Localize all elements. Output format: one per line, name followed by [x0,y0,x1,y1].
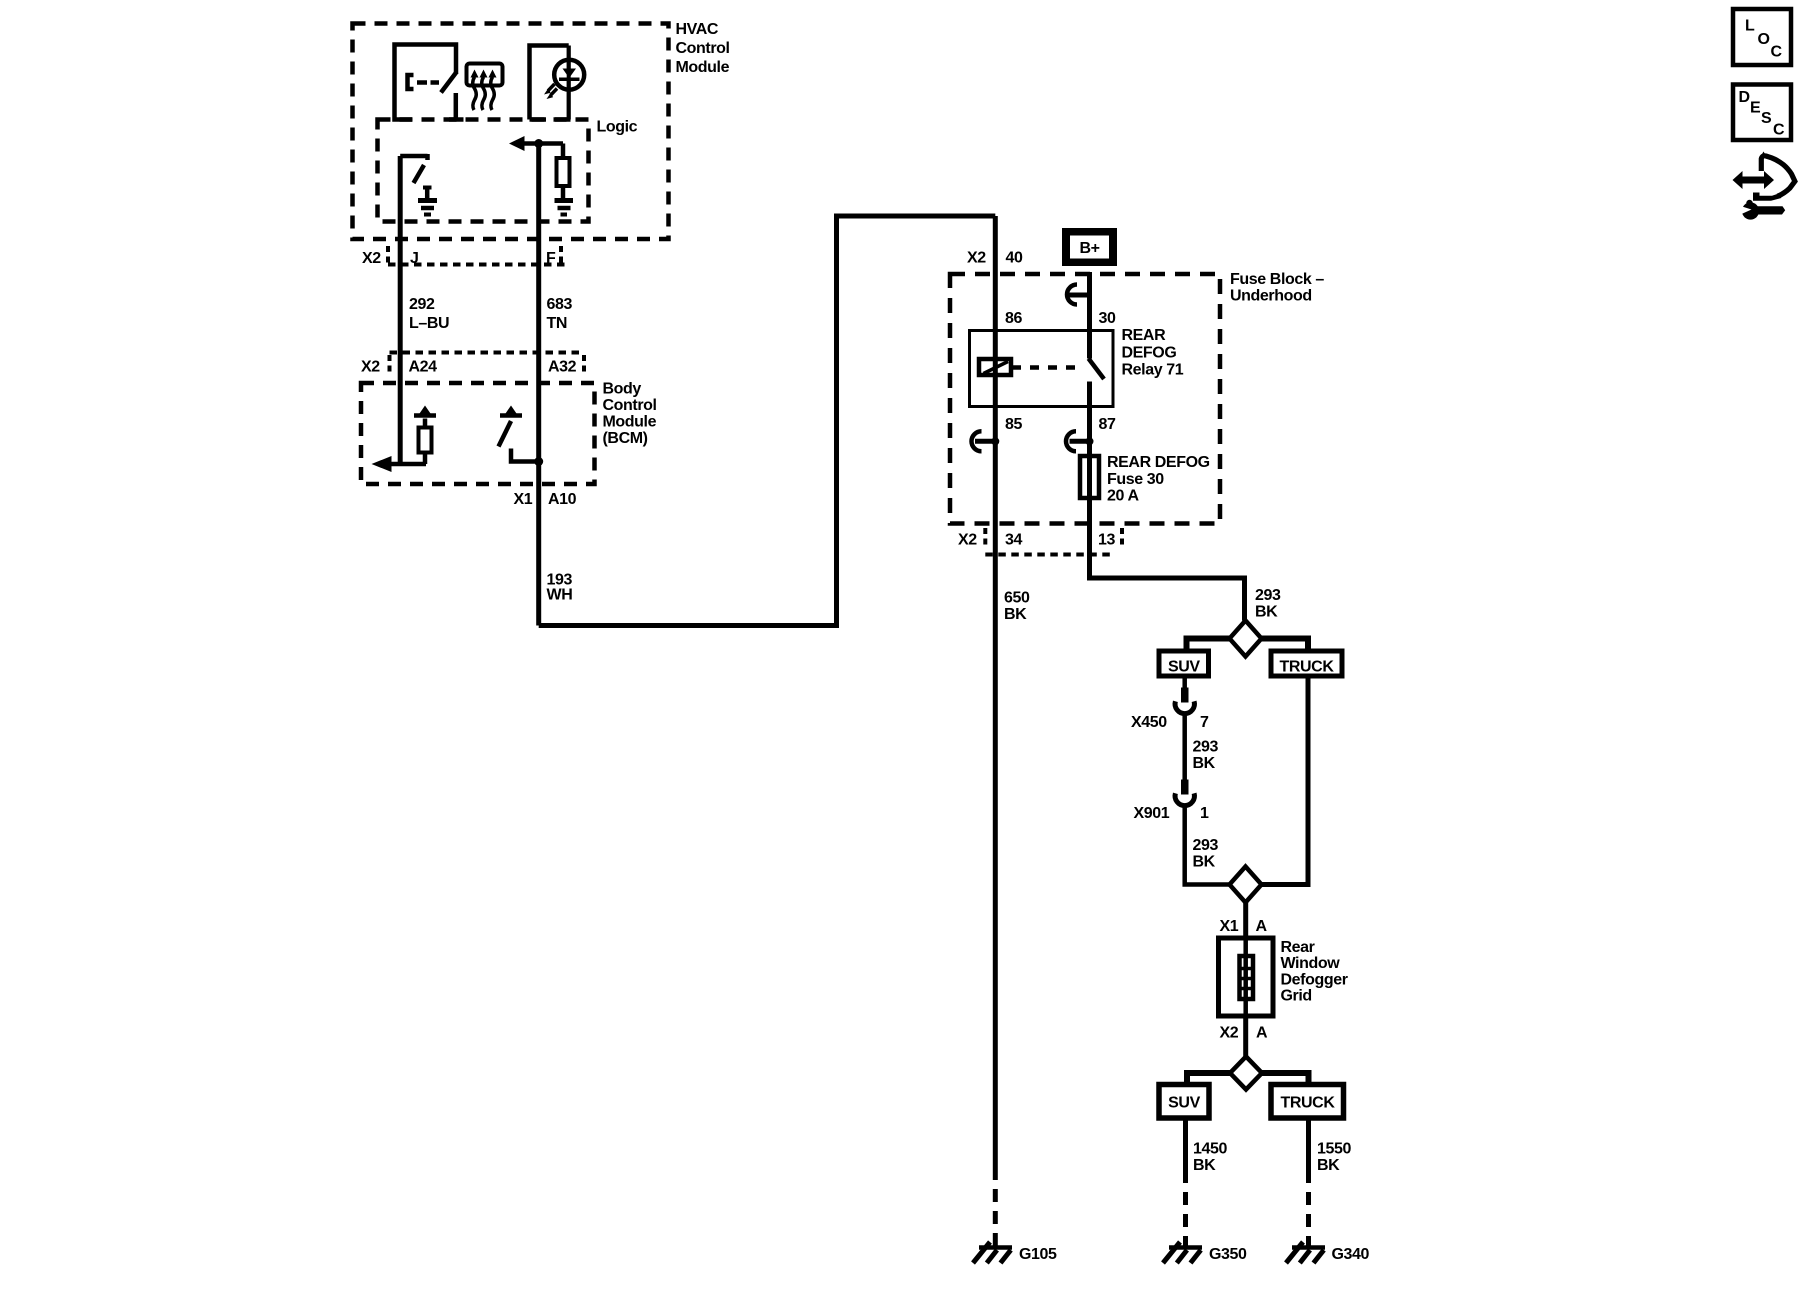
svg-text:Fuse 30: Fuse 30 [1107,471,1164,488]
TRUCK option box 2 [1271,1085,1344,1119]
connector row X1 / A10 [514,491,577,508]
svg-text:Module: Module [676,59,730,76]
svg-text:X450: X450 [1131,714,1167,731]
svg-text:TRUCK: TRUCK [1280,659,1335,676]
wire label 293 BK [1193,837,1219,871]
svg-text:TN: TN [547,315,568,332]
svg-text:(BCM): (BCM) [603,430,648,447]
wire: pin 13 to splice (293 BK) [1090,555,1245,621]
svg-text:L: L [1745,18,1755,35]
ground in logic (right) [555,201,574,215]
wire: long run from A10 to fuse block pin 40 [539,216,996,626]
svg-text:1450: 1450 [1193,1141,1227,1158]
svg-text:Fuse Block –: Fuse Block – [1230,271,1324,288]
svg-text:13: 13 [1098,532,1115,549]
Body Control Module (BCM) dashed box [361,381,657,485]
node: junction dot on F wire [534,139,543,148]
wire: splice 2 to defogger grid X1-A [1243,903,1248,939]
svg-text:A24: A24 [409,359,438,376]
svg-text:Module: Module [603,414,657,431]
rear defog indicator icon [467,64,503,111]
svg-text:B+: B+ [1079,240,1099,257]
svg-text:292: 292 [409,296,435,313]
svg-text:BK: BK [1004,606,1027,623]
svg-text:293: 293 [1255,587,1281,604]
Logic dashed box [378,119,638,222]
svg-text:X2: X2 [967,250,986,267]
wire label 683 TN [547,296,573,332]
defog switch S1 in HVAC [395,45,464,120]
BCM internal arrow to left [372,456,427,472]
wire: pin 40 / 86 / 85 vertical (650 BK) [993,216,998,1180]
svg-text:X901: X901 [1134,805,1170,822]
svg-text:A: A [1256,918,1268,935]
svg-text:Defogger: Defogger [1281,972,1348,989]
wire: dashed lead to G340 [1306,1192,1311,1246]
terminal hook at pin 30 [1067,285,1090,305]
wire: dashed lead to G105 [993,1189,998,1246]
wire: splice to TRUCK tag [1262,639,1309,652]
svg-text:Logic: Logic [597,119,638,136]
svg-text:BK: BK [1193,854,1216,871]
svg-text:SUV: SUV [1168,1095,1200,1112]
wire: dashed lead to G350 [1183,1192,1188,1246]
svg-text:SUV: SUV [1168,659,1200,676]
svg-text:F: F [546,250,556,267]
connector row X2: J / F [362,246,565,267]
svg-text:1: 1 [1200,805,1209,822]
svg-text:X1: X1 [1220,918,1239,935]
REAR DEFOG Fuse 30 20 A [1080,454,1210,505]
svg-text:X2: X2 [958,532,977,549]
svg-text:Body: Body [603,381,642,398]
svg-text:TRUCK: TRUCK [1281,1095,1336,1112]
LED indicator D1 in HVAC [530,46,585,120]
TRUCK option box [1271,651,1342,676]
svg-text:7: 7 [1200,714,1209,731]
connector row X1 / A [1220,918,1268,935]
svg-text:87: 87 [1099,416,1116,433]
terminal hook at pin 85 [972,431,1000,451]
wire: X901 to splice 2 [1185,807,1230,885]
svg-text:BK: BK [1255,604,1278,621]
connector row X2 / A [1220,1025,1269,1042]
svg-text:Rear: Rear [1281,939,1315,956]
logic output arrow [509,136,563,151]
svg-text:X1: X1 [514,491,533,508]
resistor R2 in BCM with B+ arrow [414,406,436,465]
svg-text:Grid: Grid [1281,988,1312,1005]
svg-text:A32: A32 [548,359,577,376]
wire: TRUCK tag to splice 2 [1262,676,1309,885]
svg-text:C: C [1773,122,1785,139]
wire: SUV tag to X450 [1182,676,1187,688]
logic switch to ground [400,154,427,183]
svg-text:E: E [1750,100,1761,117]
svg-text:G350: G350 [1209,1246,1247,1263]
svg-text:G340: G340 [1332,1246,1370,1263]
svg-text:40: 40 [1006,250,1023,267]
SUV option box [1159,651,1209,676]
wire: fuse to pin 13 [1087,498,1092,555]
svg-text:BK: BK [1317,1157,1340,1174]
pin labels 85 / 87 [1005,416,1116,433]
wire label 193 WH [547,572,573,604]
wire: TRUCK 2 down (1550 BK) [1306,1118,1311,1183]
in-line connector X450 pin 7 [1131,688,1209,732]
terminal hook at pin 87 [1066,431,1094,451]
svg-text:85: 85 [1005,416,1022,433]
svg-text:DEFOG: DEFOG [1122,345,1177,362]
connector row X2: 34 / 13 [958,528,1122,555]
B+ battery feed symbol [1062,228,1117,266]
svg-text:Underhood: Underhood [1230,288,1312,305]
svg-text:A: A [1256,1025,1268,1042]
wire: B+ to relay pin 30 [1087,272,1092,359]
svg-text:34: 34 [1005,532,1022,549]
wire: relay pin 87 to fuse [1087,407,1092,457]
svg-text:REAR: REAR [1122,327,1167,344]
wire: X450 to X901 (293 BK) [1182,715,1187,780]
svg-text:A10: A10 [548,491,577,508]
wire label 650 BK [1004,590,1030,624]
svg-text:Control: Control [676,40,730,57]
wire: splice 3 to SUV tag 2 [1187,1073,1230,1085]
svg-text:REAR DEFOG: REAR DEFOG [1107,454,1210,471]
Rear Window Defogger Grid [1219,938,1348,1016]
svg-text:S: S [1761,110,1772,127]
svg-text:293: 293 [1193,837,1219,854]
wire J: HVAC pin J to BCM A24 [398,156,403,464]
splice diamond 1 [1230,621,1262,657]
ground G350 [1163,1242,1247,1263]
wire: grid X2-A to splice 3 [1243,1016,1248,1057]
pin labels 86 / 30 [1005,310,1116,327]
svg-text:293: 293 [1193,739,1219,756]
splice diamond 2 [1230,867,1262,903]
connector row X2: A24 / A32 [361,353,584,377]
ground G340 [1286,1242,1370,1263]
svg-text:650: 650 [1004,590,1030,607]
wire: SUV 2 down (1450 BK) [1183,1118,1188,1183]
REAR DEFOG Relay 71 [970,327,1184,407]
ground G105 [973,1242,1057,1263]
resistor R1 in logic [557,144,570,199]
svg-text:30: 30 [1099,310,1116,327]
pin labels X2 / 40 [967,250,1023,267]
in-line connector X901 pin 1 [1134,780,1210,823]
svg-text:D: D [1739,89,1750,106]
svg-text:X2: X2 [362,250,381,267]
wire: splice 3 to TRUCK tag 2 [1262,1073,1309,1085]
svg-text:Relay 71: Relay 71 [1122,362,1184,379]
svg-text:20 A: 20 A [1107,488,1139,505]
ground in logic (left) [418,188,437,215]
navigation arrows + wrench icon [1733,152,1795,220]
svg-text:Control: Control [603,397,657,414]
svg-text:86: 86 [1005,310,1022,327]
wire label 1550 BK [1317,1141,1351,1175]
svg-text:WH: WH [547,587,573,604]
svg-text:L–BU: L–BU [409,315,449,332]
wire F: HVAC pin F down through BCM to A10 [536,144,541,626]
svg-text:1550: 1550 [1317,1141,1351,1158]
svg-text:G105: G105 [1019,1246,1057,1263]
svg-text:J: J [410,250,419,267]
svg-text:X2: X2 [1220,1025,1239,1042]
LOC icon box [1733,9,1791,65]
svg-text:HVAC: HVAC [676,21,719,38]
svg-text:683: 683 [547,296,573,313]
svg-text:BK: BK [1193,755,1216,772]
wire label 292 L-BU [409,296,449,332]
SUV option box 2 [1159,1085,1209,1119]
wire label 1450 BK [1193,1141,1227,1175]
svg-text:O: O [1758,31,1770,48]
HVAC Control Module dashed box [353,21,730,239]
svg-text:BK: BK [1193,1157,1216,1174]
splice diamond 3 [1230,1057,1262,1090]
svg-text:C: C [1771,44,1783,61]
wire: splice to SUV tag [1187,639,1230,652]
DESC icon box [1733,85,1791,141]
svg-text:X2: X2 [361,359,380,376]
wire label 293 BK [1255,587,1281,621]
wire label 293 BK [1193,739,1219,773]
Fuse Block - Underhood dashed box [950,271,1324,524]
BCM internal switch with B+ arrow [499,406,544,467]
svg-text:Window: Window [1281,955,1341,972]
